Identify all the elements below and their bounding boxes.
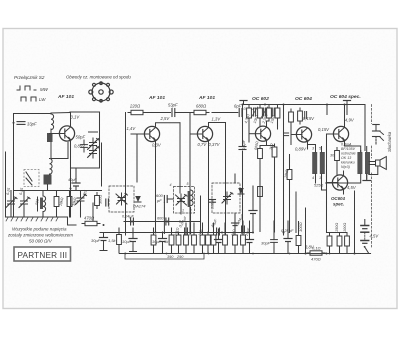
svg-text:PARTNER III: PARTNER III [18,251,68,260]
svg-text:220Ω: 220Ω [129,104,141,109]
wire stage2 left vertical [125,113,127,236]
resistor RB4 [275,105,280,121]
label 600pF [156,193,163,203]
wire vertical 243b [242,221,244,226]
resistor 1.5k a [108,232,121,248]
coupling coil dark [47,133,53,142]
svg-text:300Ω: 300Ω [99,195,103,204]
trimmer in IF2a [176,194,188,206]
wire risers to mid rail [11,191,81,197]
wire base column down [136,134,137,182]
svg-text:1,5k: 1,5k [108,238,117,243]
capacitor 30uF [91,233,108,245]
resistor RB3 [267,105,272,121]
antenna coil lower [50,159,53,175]
diode OA174 [133,196,146,209]
capacitor el m [284,234,292,246]
wire far-left vertical [5,152,7,217]
wire lower block [48,143,69,191]
resistor 220 [128,104,146,115]
note text [7,227,73,244]
transistor Q2 AF101 [144,126,159,141]
resistor under OC602 E2 [258,184,263,200]
wire rail junction dots [125,253,331,255]
speaker [369,157,387,175]
svg-text:AF 101: AF 101 [57,94,74,100]
capacitor 0.04uF [242,106,256,113]
capacitor 0.04uF bus a [178,215,188,235]
svg-text:OC 602: OC 602 [252,96,269,102]
capacitor el k [246,235,254,247]
wire Q5 emitter [290,141,308,233]
svg-text:0,7V: 0,7V [198,142,208,147]
resistor RB2 [258,105,263,121]
wire speaker return [354,191,356,254]
wire T2 connections [326,147,367,184]
wire vertical 305 [305,208,307,254]
wire Q1 emitter down [70,140,72,217]
wire OC602 left vertical [242,105,244,233]
resistor bank i [233,232,238,248]
IF transformer dashed box 2 [212,183,240,213]
wire rail 259 [125,253,204,259]
wire Q1 collector up [70,112,72,127]
resistor R2 [67,194,72,210]
coil in IF2a [191,190,194,206]
transistor Q7 OC604spec [332,175,347,190]
wire rail link [51,112,70,115]
svg-text:680Ω: 680Ω [196,104,207,109]
wire links OC602 bottom [253,160,275,232]
trimmer CT3 [76,194,87,206]
wire Q3 base [190,133,198,135]
svg-text:30pF: 30pF [261,241,271,246]
svg-text:10μF: 10μF [152,239,162,244]
ground above OC602 rail [240,101,247,105]
svg-text:OC 604: OC 604 [295,96,312,102]
diode in IF2 [238,188,244,194]
resistor RB1 [247,105,252,121]
wire Q1 base [50,133,60,135]
capacitor 33pF [17,122,37,127]
svg-text:1: 1 [319,176,321,180]
IF transformer dashed box 2 [174,187,195,214]
resistor bank j [241,232,246,248]
resistor bank d [192,232,197,248]
wire Q2 base [131,133,145,135]
svg-text:1: 1 [182,209,184,213]
label OC604 spec lower [331,196,345,207]
capacitor 10uF a [122,234,137,246]
coupling coil dark 2 [44,175,52,185]
wire Q2 collector up [156,123,181,127]
wire stage2 right vertical [179,123,181,193]
wire bus mid 231 [100,232,253,234]
svg-text:0,15V: 0,15V [318,127,330,132]
svg-text:0,15V: 0,15V [303,116,315,121]
svg-text:OC 604 spec.: OC 604 spec. [330,94,361,100]
svg-text:0,3V: 0,3V [152,143,162,148]
svg-text:4: 4 [170,183,172,187]
extra labels OC602 bottom [254,141,289,179]
capacitor at IF3 left [210,200,216,203]
capacitor 10uF b [152,234,167,246]
wire Q3 emitter down [208,141,210,233]
svg-text:4,5V: 4,5V [370,234,380,239]
resistor bank n [327,233,332,249]
resistor 1.5k b [151,232,156,248]
wire T1 connections [308,145,322,191]
svg-text:50 000 Ω/V: 50 000 Ω/V [29,239,53,244]
wire Q3 collector up [209,123,226,127]
svg-text:OA174: OA174 [133,204,146,209]
svg-text:4,5V: 4,5V [347,185,357,190]
capacitor 0.25uF [271,228,294,247]
svg-text:spec.: spec. [333,202,344,207]
capacitor 10uF el [249,206,257,218]
wire vertical 296 [295,192,297,233]
svg-text:290: 290 [176,255,184,259]
svg-text:5: 5 [187,182,189,186]
svg-text:OK 13: OK 13 [341,156,351,160]
svg-text:0,1V: 0,1V [71,115,81,120]
resistor 680 [191,104,209,115]
resistor R out [335,148,340,164]
svg-text:1,3V: 1,3V [212,117,222,122]
wire bottom stubs [100,245,347,254]
resistor 47 horizontal [307,246,325,262]
resistor bank h [223,232,228,248]
wire 40uF riser [75,168,77,191]
svg-text:0,89V: 0,89V [295,147,307,152]
svg-text:0,1Ω: 0,1Ω [312,246,321,251]
capacitor on base line OC604 [284,133,288,136]
svg-text:AF 101: AF 101 [148,95,165,101]
svg-text:ostrożnie: ostrożnie [341,152,356,156]
resistor bank b2 [176,232,181,248]
PARTNER III box [14,247,71,261]
switch contacts [26,172,32,185]
svg-text:Obwody cz. montowane od spodu: Obwody cz. montowane od spodu [66,75,131,80]
capacitor C em [81,140,88,152]
wire main bottom rail [120,253,371,255]
svg-text:0,37V: 0,37V [209,142,221,147]
svg-text:1,4V: 1,4V [127,126,137,131]
wire stubs to bottom rail [11,203,93,225]
wire left vertical [13,114,15,218]
ground mark above rail 347 [344,101,351,105]
wire mid rail 188 [14,190,102,192]
wire stage1 top rail [70,112,100,168]
capacitor on bus221 b [157,217,169,226]
wire Q2 emitter down [155,141,157,183]
svg-text:zostały zmierzone woltomierzem: zostały zmierzone woltomierzem [7,233,73,238]
transistor Q1 AF101 [59,126,74,141]
capacitor scribble a OC602 [252,107,258,117]
capacitor on 242 [239,147,246,150]
wire T1 to Q7 [322,189,327,191]
IF transformer dashed box 1 [109,186,134,212]
wire Q7 leads [327,164,348,233]
wire Q4 emitter down [260,141,275,232]
svg-text:4: 4 [312,176,314,180]
wire stage3 right vertical [225,123,227,236]
resistor R10k [287,167,292,183]
svg-text:AF 101: AF 101 [198,95,215,101]
resistor bank c [184,232,189,248]
resistor 300 mid [95,193,103,209]
resistor 470 horizontal [82,216,100,226]
svg-text:pF: pF [156,198,162,203]
capacitor below IF3 [232,223,239,226]
transistor Q4 OC602 [255,126,270,141]
svg-text:BF/105V: BF/105V [341,147,356,151]
svg-text:MW: MW [40,87,49,92]
capacitor left of IF1 [106,199,109,206]
capacitor scribble OC604 [305,112,307,119]
svg-text:470Ω: 470Ω [84,216,95,221]
wire coil column [50,129,52,159]
switch on battery [364,246,369,253]
capacitor 53pF [168,103,190,117]
transistor Q5 OC604 [296,127,311,142]
resistor bank f [211,232,216,248]
resistor 5k [164,232,174,248]
wire bus 221 [124,221,201,223]
svg-text:kierunku: kierunku [341,161,355,165]
driver transformer T1 [312,147,325,181]
svg-text:0,04μF: 0,04μF [122,215,134,219]
capacitor 40uF [72,179,80,191]
battery 4.5V [361,220,379,244]
svg-text:Przełącznik S2: Przełącznik S2 [14,75,45,80]
wire vertical 283 [283,105,285,236]
svg-text:0,1μF: 0,1μF [241,139,246,150]
wire coil bottom [156,182,191,234]
trimmer CT1 [6,197,17,209]
wire stage1 mid links [71,167,100,169]
resistor 100 [296,222,303,248]
extra rotated labels left [6,188,88,197]
wire Q4 collector/base [249,121,278,142]
capacitor 600p [164,196,173,203]
wire top stubs bottom row [119,221,299,235]
svg-text:Wszystkie podane napięcia: Wszystkie podane napięcia [12,227,67,232]
waveform LW [21,97,46,102]
switch dashed box S2 [24,170,39,187]
trimmer in IF2 [222,192,233,204]
wire stage3 left vertical [189,113,191,236]
svg-text:525Ω: 525Ω [314,184,323,188]
svg-text:600: 600 [157,217,164,221]
resistor RB5 [289,109,294,125]
pin digits IF2a [170,182,192,213]
resistor RE4 [258,146,263,162]
svg-text:50pF: 50pF [76,135,86,140]
svg-text:4,9V: 4,9V [345,118,355,123]
capacitor scribble b OC602 [262,107,275,117]
earphone jack [373,125,384,145]
svg-text:100Ω: 100Ω [343,223,347,232]
svg-text:10μF: 10μF [122,239,132,244]
waveform MW [17,86,49,92]
svg-text:2,5V: 2,5V [160,116,171,121]
resistor bank e2 [206,232,211,248]
ground hatching left rail [6,218,58,222]
wire rail to cap [146,112,171,114]
antenna coil upper [51,114,54,130]
wire top-left rail [14,113,52,115]
svg-text:OC604: OC604 [331,196,345,201]
trimmer in IF1 [116,193,128,205]
transistor Q3 AF101 [197,126,212,141]
resistor bank e [200,232,205,248]
transistor Q6 OC604spec [333,126,348,141]
wire Q5 base [291,125,297,145]
svg-text:0,3mA: 0,3mA [341,143,352,147]
wire vertical 200 [200,196,202,233]
svg-text:100pF: 100pF [210,198,214,209]
wire vertical 101 [101,143,103,186]
wire IF2 links [234,174,236,232]
svg-text:390: 390 [167,255,174,259]
junction dots buses [13,104,356,255]
svg-text:470Ω: 470Ω [311,257,321,262]
coil L2 with core [38,196,46,212]
wire Q4 base feed [249,133,255,135]
wire Q6 leads [327,105,361,183]
transistor pinout view [89,82,113,102]
capacitor on bus224 [122,215,134,226]
svg-text:150Ω: 150Ω [335,223,339,232]
output transformer T2 [357,152,370,174]
svg-text:6pF: 6pF [234,104,242,109]
svg-text:53pF: 53pF [168,103,178,108]
svg-text:33pF: 33pF [27,122,37,127]
svg-text:LW: LW [39,97,46,102]
wire left bottom rail [6,217,77,225]
wire T2 to speaker [369,162,375,165]
svg-text:Słuchawka: Słuchawka [387,131,392,152]
wire dashed shield [371,105,373,248]
resistor RL4 [272,144,277,160]
capacitor 0.04uF bus b [210,218,219,235]
resistor bank o [335,223,342,249]
wire output rail riser [327,105,365,151]
svg-text:N(x3): N(x3) [341,165,350,169]
ground under T2 [363,174,371,181]
wire top long rail [242,104,365,106]
annotation block [341,143,356,170]
resistor R1 [54,194,59,210]
capacitor 0.04uF bus c [235,213,245,233]
capacitor 6pF [212,104,242,117]
trimmer CT2 [19,197,30,209]
tuning gang section A [88,132,100,158]
capacitor el g [215,235,223,247]
svg-text:30μF: 30μF [91,238,101,243]
resistor bank p [343,223,349,249]
resistor RB6 [298,108,303,124]
